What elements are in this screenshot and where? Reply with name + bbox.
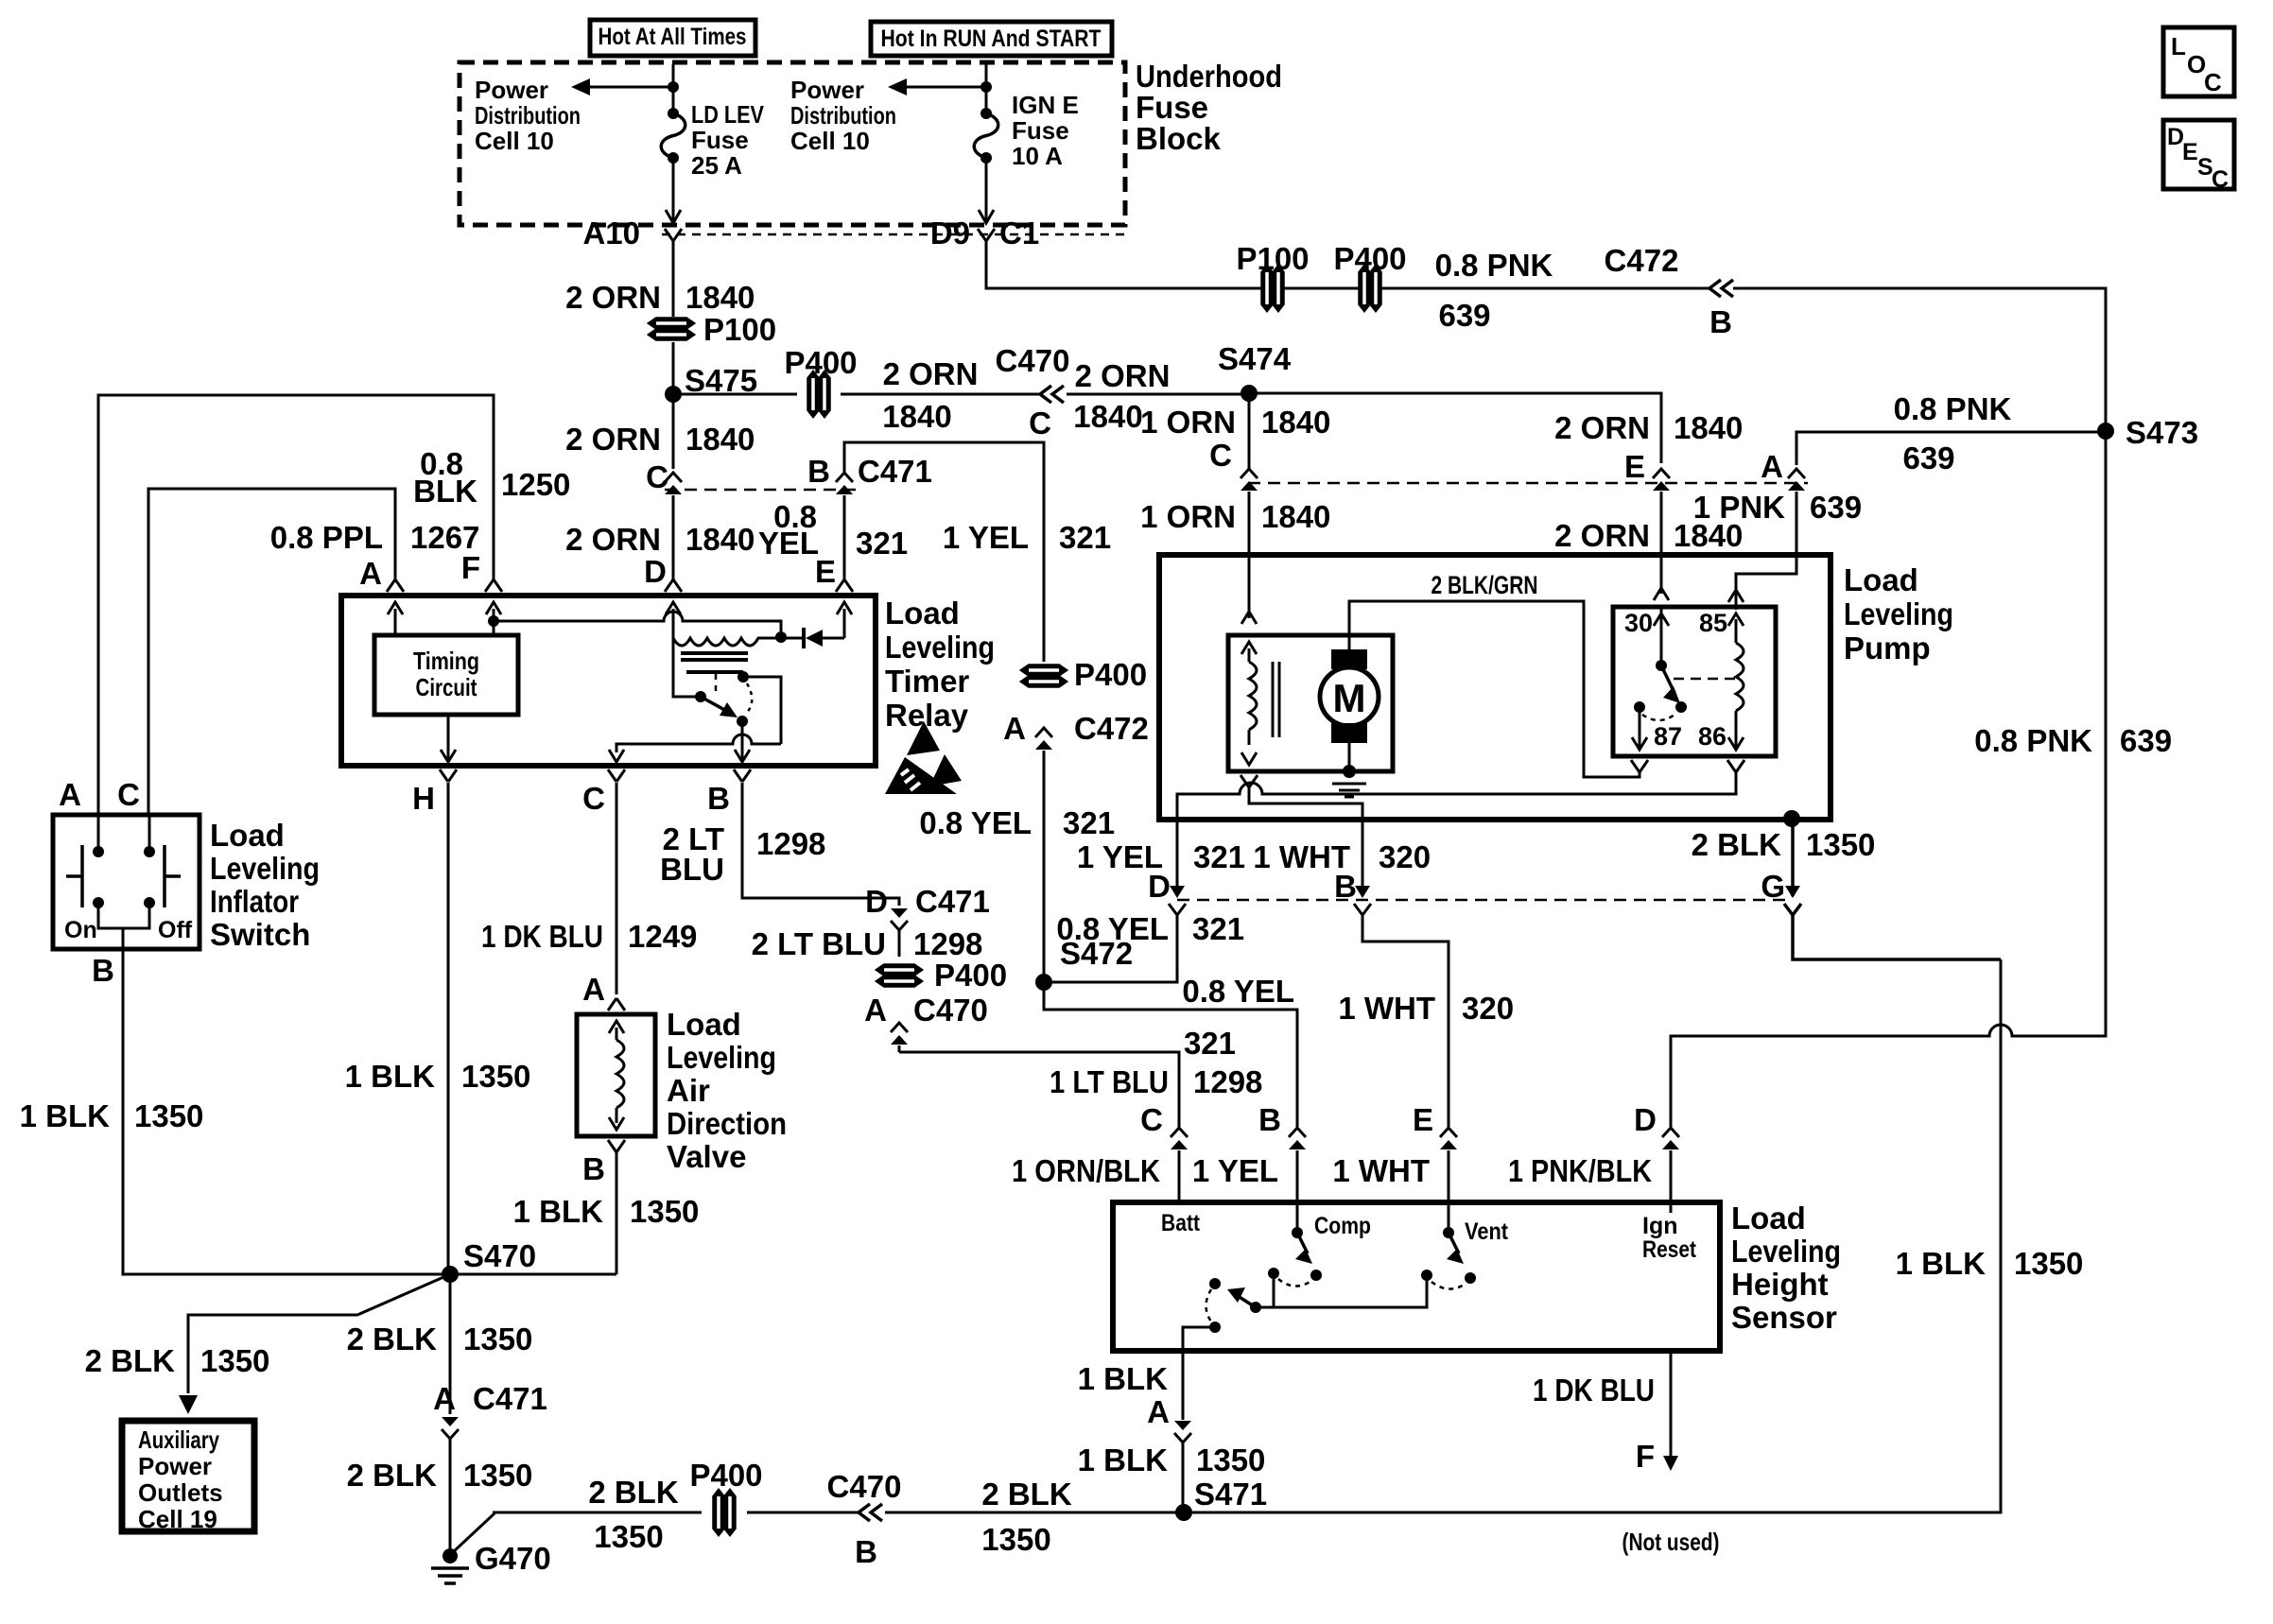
svg-text:639: 639 (1810, 490, 1862, 525)
svg-text:Direction: Direction (667, 1106, 787, 1141)
wire: relay A to timing circuit (394, 609, 397, 635)
svg-text:F: F (1636, 1439, 1655, 1474)
valve internal arrow (top) (609, 1021, 624, 1033)
suppressor coil exit fork (1241, 775, 1249, 787)
connector P400 grommet (C1 run) (1360, 266, 1370, 311)
wire: IGN E fuse output (985, 158, 988, 221)
svg-text:321: 321 (1063, 805, 1115, 840)
sensor Batt switch lower contact (1209, 1322, 1221, 1333)
wire: sensor Ign Reset pin stub (1670, 1202, 1673, 1213)
connector C471 dashed line (665, 489, 856, 492)
relay pin H internal arrow (441, 750, 456, 762)
splice S472 (1035, 974, 1052, 991)
svg-text:Load: Load (210, 818, 285, 853)
svg-text:1 YEL: 1 YEL (1192, 1153, 1278, 1188)
node: Vent right contact (1465, 1272, 1476, 1284)
svg-text:1350: 1350 (1196, 1443, 1265, 1477)
valve solenoid coil (616, 1028, 618, 1040)
svg-text:1 PNK/BLK: 1 PNK/BLK (1508, 1153, 1652, 1188)
relay pin D entry fork (665, 579, 673, 592)
relay pin A internal arrow (388, 602, 403, 614)
wire: S472 to sensor B (Comp) (1044, 982, 1297, 1127)
svg-text:A: A (1761, 449, 1783, 484)
pump relay pin 86 exit fork (1727, 760, 1736, 772)
svg-text:B: B (807, 454, 830, 489)
Underhood Fuse Block dashed outline (460, 62, 1125, 225)
svg-text:1298: 1298 (1193, 1064, 1262, 1099)
node: switch Off lower contact (144, 897, 155, 908)
svg-text:2 BLK/GRN: 2 BLK/GRN (1431, 571, 1538, 599)
svg-text:0.8 YEL: 0.8 YEL (919, 805, 1032, 840)
wire: inflator switch C feed to relay A (148, 489, 395, 815)
sensor D fork pair (1662, 1128, 1679, 1137)
wire: C470 A to sensor C (Batt) (899, 1052, 1179, 1127)
wire: S470 down to C471 A (449, 1274, 452, 1414)
svg-text:2 ORN: 2 ORN (565, 422, 661, 457)
svg-text:Valve: Valve (667, 1139, 746, 1174)
sensor A fork pair (1174, 1421, 1191, 1430)
connector C470 chevrons (1040, 386, 1051, 403)
svg-text:Circuit: Circuit (416, 673, 477, 701)
wire: S473 west to pump A branch (1796, 432, 2106, 465)
svg-text:1 BLK: 1 BLK (345, 1059, 436, 1094)
switch Off fixed contact bar (163, 845, 166, 907)
pump relay 30 internal arrow (1654, 613, 1669, 626)
svg-text:P400: P400 (934, 958, 1007, 993)
wire: sensor Vent pin stub (1448, 1202, 1450, 1229)
svg-text:Timing: Timing (413, 647, 479, 675)
svg-text:S475: S475 (685, 363, 757, 398)
splice S470 (442, 1266, 459, 1283)
svg-text:G470: G470 (475, 1541, 551, 1576)
svg-text:639: 639 (1902, 441, 1954, 475)
wire: C470 to S474 (1067, 393, 1249, 396)
svg-text:1267: 1267 (410, 520, 479, 555)
svg-text:D: D (644, 554, 667, 589)
wire: G470 to ground bus diagonal (452, 1513, 495, 1553)
connector C471 joint at pin A (442, 1417, 459, 1426)
svg-text:S473: S473 (2126, 415, 2198, 450)
pin D9/C1 fork (978, 229, 986, 241)
connector C472 joint at pin C (1241, 469, 1258, 478)
svg-text:M: M (1333, 676, 1366, 720)
inflator switch A contact stub (97, 815, 100, 847)
connector P400 grommet (C470 A riser) (876, 965, 922, 976)
wire: P400 to C470 (841, 393, 1040, 396)
svg-text:321: 321 (1193, 839, 1245, 874)
wire: C472 A into pump to relay 85 (1736, 492, 1796, 586)
wire: 2 BLK/GRN motor feed from relay 87 (1349, 601, 1640, 777)
wire: C472 E to Load Leveling Pump (1660, 492, 1663, 555)
wire: relay E to diode (843, 609, 846, 638)
svg-text:C470: C470 (913, 993, 988, 1028)
svg-text:30: 30 (1624, 609, 1653, 637)
svg-text:E: E (1413, 1102, 1433, 1137)
svg-text:2 ORN: 2 ORN (883, 356, 979, 391)
svg-text:Fuse: Fuse (691, 126, 749, 154)
svg-text:1350: 1350 (630, 1194, 699, 1229)
svg-text:0.8 PNK: 0.8 PNK (1435, 248, 1553, 283)
svg-text:Fuse: Fuse (1012, 116, 1069, 145)
svg-text:320: 320 (1462, 991, 1514, 1026)
svg-text:P100: P100 (1236, 241, 1309, 276)
svg-text:D9: D9 (930, 216, 970, 251)
svg-text:A: A (1147, 1394, 1170, 1429)
wire: sensor A joint to S471 (1182, 1443, 1185, 1512)
svg-text:E: E (815, 554, 836, 589)
node: switch C contact (144, 846, 155, 857)
node: relay F junction (488, 615, 499, 627)
svg-text:A10: A10 (582, 216, 640, 251)
Load Leveling Height Sensor box (1113, 1202, 1720, 1351)
wire: hot feed C1 run to C472 B (986, 241, 1265, 288)
connector C471 joint at pin C (665, 473, 682, 482)
svg-text:1298: 1298 (756, 826, 825, 861)
wire: C471 B down to relay pin E (843, 495, 846, 580)
arrowhead at fuse block exit A10 (666, 210, 681, 223)
wire: sensor Comp pin stub (1296, 1202, 1299, 1229)
power label box: Hot In RUN And START (871, 22, 1112, 56)
wire: 2 ORN 1840 from A10 to P100 (672, 241, 675, 317)
node: Vent contact (1443, 1227, 1454, 1238)
relay pin F entry fork (485, 579, 494, 592)
splice S475 (665, 386, 682, 403)
relay armature dashed actuator link (715, 674, 718, 695)
inflator switch C contact stub (148, 815, 151, 847)
svg-text:1350: 1350 (463, 1458, 532, 1493)
wire: battery feed into LD LEV fuse (672, 64, 675, 112)
svg-text:C: C (1029, 406, 1051, 441)
wire: ground bus west segment (493, 1512, 702, 1514)
switch On fixed contact bar (80, 845, 84, 907)
relay pin D internal arrow (666, 602, 681, 614)
pump relay box (1613, 607, 1776, 756)
wire: S470 branch to auxiliary power outlets (188, 1274, 450, 1393)
svg-text:B: B (1334, 869, 1357, 904)
sensor Batt switch upper contact (1209, 1278, 1221, 1289)
svg-text:C470: C470 (827, 1469, 902, 1504)
connector C470 chevrons (ground bus) (859, 1504, 870, 1521)
wire: inflator B to S470 run (123, 949, 448, 1274)
relay alternate-throw dotted arc (746, 683, 752, 714)
wire: relay C to valve A (616, 783, 618, 994)
node: sensor Vent-side bus contact (1421, 1270, 1432, 1281)
svg-text:BLU: BLU (660, 852, 724, 887)
wire: relay internal C bus with hop over pin B wire (616, 734, 781, 752)
svg-text:Cell 10: Cell 10 (475, 127, 554, 155)
svg-text:1840: 1840 (1073, 399, 1142, 434)
splice S474 (1241, 385, 1258, 402)
pump pin C internal arrow (1241, 612, 1257, 624)
relay movable contact arm (701, 697, 728, 712)
relay coil (timer winding) (673, 638, 781, 646)
svg-text:Batt: Batt (1161, 1210, 1201, 1236)
connector P100 grommet (C1 run) (1262, 266, 1273, 311)
svg-text:Fuse: Fuse (1136, 90, 1208, 125)
svg-text:2 BLK: 2 BLK (347, 1458, 438, 1493)
connector C471 joint at pin B (836, 473, 853, 482)
svg-text:C: C (1209, 438, 1232, 473)
relay movable contact pivot (695, 691, 706, 702)
pump connector fork at D (1169, 904, 1186, 915)
svg-text:C: C (2212, 166, 2229, 193)
Auxiliary Power Outlets Cell 19 box (122, 1421, 254, 1531)
wire: relay B down to C471 D corner (742, 783, 899, 906)
ESD sensitivity symbol (885, 757, 957, 794)
sensor E fork pair (1440, 1128, 1457, 1137)
wire: C472 A to splice S472 (1043, 751, 1046, 982)
svg-text:F: F (461, 550, 480, 585)
connector C472 joint at pin A (lower) (1035, 728, 1052, 737)
svg-text:G: G (1761, 869, 1785, 904)
pump relay coil 85-86 (1735, 619, 1738, 643)
svg-text:Outlets: Outlets (138, 1478, 223, 1507)
svg-text:Leveling: Leveling (210, 851, 320, 886)
diode CR1 (suppression) (802, 628, 806, 648)
svg-text:D: D (865, 884, 888, 919)
svg-text:1 LT BLU: 1 LT BLU (1050, 1064, 1169, 1099)
svg-text:Load: Load (1844, 562, 1918, 597)
svg-text:1 BLK: 1 BLK (1078, 1361, 1169, 1396)
svg-text:Height: Height (1731, 1267, 1829, 1302)
wire: pump G to C473 row (1791, 819, 1795, 896)
svg-text:1350: 1350 (134, 1098, 203, 1133)
svg-text:321: 321 (1184, 1026, 1236, 1061)
Timing Circuit box (374, 635, 518, 715)
svg-text:Inflator: Inflator (210, 884, 299, 919)
wire: inflator switch A feed to relay F (98, 395, 494, 815)
svg-text:B: B (1258, 1102, 1281, 1137)
svg-text:1840: 1840 (1261, 405, 1330, 440)
svg-text:25 A: 25 A (691, 151, 742, 180)
wire: 87 contact to pin 87 (1639, 707, 1641, 747)
wire: pump B jog to height sensor E (1362, 915, 1449, 1127)
svg-text:1 YEL: 1 YEL (943, 520, 1029, 555)
svg-text:1250: 1250 (501, 467, 570, 502)
wire: C470 A down to sensor C run (898, 1045, 901, 1052)
node: Comp left contact (1268, 1268, 1279, 1279)
svg-text:1840: 1840 (685, 422, 755, 457)
wire: arrow to Power Distribution (right) (901, 86, 986, 89)
svg-text:Air: Air (667, 1073, 710, 1108)
svg-text:Pump: Pump (1844, 631, 1931, 665)
svg-text:Vent: Vent (1465, 1218, 1509, 1245)
relay armature plate (686, 670, 743, 674)
sensor Vent dashed arc (1431, 1282, 1466, 1289)
svg-text:2 LT BLU: 2 LT BLU (752, 926, 886, 961)
wire: armature to pin B (741, 721, 744, 760)
svg-text:1840: 1840 (685, 522, 755, 557)
svg-text:S472: S472 (1060, 936, 1133, 971)
splice S471 (1175, 1504, 1192, 1521)
svg-text:1350: 1350 (594, 1519, 663, 1554)
wire: arrow to Power Distribution (left) (584, 86, 673, 89)
svg-text:BLK: BLK (413, 474, 477, 509)
wire: 30 to contact pivot (1660, 607, 1663, 662)
pump relay movable contact arm (1661, 665, 1674, 693)
node: Comp contact (1292, 1227, 1303, 1238)
svg-text:2 BLK: 2 BLK (981, 1477, 1072, 1512)
wire: S474 drop to pump C (1248, 393, 1251, 469)
connector P400 grommet (ground bus) (714, 1490, 724, 1535)
svg-text:1840: 1840 (1261, 499, 1330, 534)
relay pin E internal arrow (837, 602, 852, 614)
svg-text:Load: Load (1731, 1201, 1806, 1235)
svg-text:1 BLK: 1 BLK (1078, 1443, 1169, 1477)
node: LD LEV feed junction (668, 81, 679, 93)
wire: valve B to S470 run (616, 1152, 618, 1274)
svg-text:P400: P400 (689, 1458, 762, 1493)
suppressor coil internal arrow (top) (1241, 642, 1257, 654)
svg-text:B: B (1709, 304, 1732, 339)
svg-text:S474: S474 (1218, 341, 1292, 376)
svg-text:Reset: Reset (1642, 1236, 1697, 1263)
wire: relay F bus with hop over D wire (494, 612, 781, 631)
valve pin B exit fork (608, 1140, 616, 1152)
connector C472 joint at pin A (1788, 469, 1805, 478)
svg-text:2 ORN: 2 ORN (565, 280, 661, 315)
svg-text:P100: P100 (703, 312, 776, 347)
svg-text:639: 639 (1438, 298, 1490, 333)
connector C472 dashed line (1248, 482, 1808, 485)
wire: lower contact to pin A (1183, 1327, 1215, 1351)
svg-text:Power: Power (475, 76, 548, 104)
svg-text:Cell 19: Cell 19 (138, 1505, 217, 1533)
svg-text:85: 85 (1699, 609, 1727, 637)
svg-text:C471: C471 (915, 884, 990, 919)
svg-text:1840: 1840 (882, 399, 951, 434)
wire: P100 to S475 (672, 342, 675, 391)
svg-text:87: 87 (1654, 722, 1682, 751)
svg-text:C1: C1 (999, 216, 1039, 251)
sensor Vent movable arm (1449, 1233, 1459, 1253)
wire: sensor F (not used) (1670, 1351, 1673, 1465)
svg-text:C471: C471 (473, 1381, 547, 1416)
svg-text:Underhood: Underhood (1136, 59, 1282, 94)
wire: pump D to S472 corner (1044, 915, 1177, 982)
wire: relay F to timing circuit (493, 609, 495, 635)
svg-text:Ign: Ign (1642, 1213, 1678, 1239)
wire: C471 B up and over to P400/C472 A (844, 442, 1044, 662)
pump motor M1 (1331, 649, 1367, 669)
svg-text:B: B (707, 781, 730, 816)
wire: relay H to S470 (447, 783, 450, 1274)
pump pin E internal arrow (1654, 588, 1669, 600)
wire: P400 to C470 (ground bus) (747, 1512, 859, 1514)
svg-text:C472: C472 (1605, 243, 1679, 278)
svg-text:Leveling: Leveling (667, 1040, 776, 1075)
wire: C470 to S471 (885, 1512, 1184, 1514)
relay pin C exit fork (608, 769, 616, 782)
connector C472 chevrons at B (1709, 280, 1721, 297)
fuse IGN E 10 A symbol (980, 108, 992, 119)
svg-text:1 WHT: 1 WHT (1338, 991, 1435, 1026)
svg-text:1350: 1350 (463, 1322, 532, 1356)
node: armature tip contact (737, 716, 748, 727)
svg-text:C470: C470 (996, 343, 1070, 378)
svg-text:Off: Off (158, 917, 193, 943)
svg-text:IGN E: IGN E (1012, 91, 1079, 119)
svg-text:1 PNK: 1 PNK (1693, 490, 1785, 525)
svg-text:(Not used): (Not used) (1622, 1528, 1720, 1556)
node: Comp right contact (1310, 1270, 1322, 1281)
sensor Batt switch dashed arc (1206, 1289, 1212, 1322)
motor case ground (1348, 743, 1351, 766)
node: coil-diode junction (775, 631, 787, 643)
node: 30 contact pivot (1656, 660, 1667, 671)
svg-text:1350: 1350 (200, 1343, 269, 1378)
wire: suppressor coil to pump pin B (1249, 786, 1362, 820)
svg-text:E: E (2182, 139, 2198, 165)
svg-text:B: B (582, 1151, 605, 1186)
pump relay 87 dotted arc (1642, 715, 1674, 720)
DESC reference box (2163, 120, 2234, 189)
node: switch On lower contact (93, 897, 104, 908)
svg-text:1 DK BLU: 1 DK BLU (1533, 1373, 1655, 1408)
pump suppressor coil box (1228, 635, 1393, 771)
svg-text:Distribution: Distribution (790, 101, 896, 130)
svg-text:2 BLK: 2 BLK (347, 1322, 438, 1356)
relay pin F internal arrow (486, 602, 501, 614)
pump relay 86 internal arrow (1728, 737, 1744, 750)
svg-text:A: A (59, 777, 81, 812)
svg-text:A: A (582, 972, 605, 1007)
power label box: Hot At All Times (590, 20, 755, 56)
svg-text:Load: Load (667, 1007, 741, 1042)
svg-text:C: C (582, 781, 605, 816)
pump relay 85 internal arrow (1728, 613, 1744, 626)
svg-text:Hot At All Times: Hot At All Times (599, 24, 747, 50)
svg-text:Leveling: Leveling (1731, 1234, 1841, 1269)
wire: pump B to C473 row (1362, 820, 1364, 896)
svg-text:P400: P400 (1074, 657, 1147, 692)
arrowhead at fuse block exit D9 (979, 210, 994, 223)
pin A10 fork (665, 229, 673, 241)
sensor Comp movable arm (1297, 1233, 1308, 1253)
connector C472 joint at pin E (1653, 469, 1670, 478)
svg-text:Auxiliary: Auxiliary (138, 1425, 219, 1454)
svg-text:86: 86 (1698, 722, 1726, 751)
svg-text:Power: Power (138, 1452, 212, 1480)
svg-text:C: C (117, 777, 140, 812)
svg-text:D: D (1634, 1102, 1657, 1137)
node: pump relay armature tip (1675, 701, 1687, 713)
sensor selector bus (1256, 1278, 1427, 1307)
relay pin B internal arrow (735, 750, 750, 762)
Load Leveling Pump box (1159, 555, 1831, 820)
wire: C471 C to relay pin D (672, 495, 675, 580)
svg-text:639: 639 (2120, 723, 2172, 758)
svg-text:1 BLK: 1 BLK (513, 1194, 604, 1229)
svg-text:321: 321 (856, 526, 908, 561)
pump connector fork at B (1354, 904, 1371, 915)
wire: P400 to C472 B (1378, 287, 1709, 290)
svg-text:C472: C472 (1074, 711, 1149, 746)
svg-text:1249: 1249 (628, 919, 697, 954)
svg-text:1 ORN: 1 ORN (1140, 405, 1236, 440)
svg-text:2 ORN: 2 ORN (565, 522, 661, 557)
svg-text:321: 321 (1059, 520, 1111, 555)
svg-text:A: A (864, 993, 887, 1028)
svg-text:P400: P400 (784, 345, 857, 380)
ground G470 (442, 1548, 458, 1564)
svg-text:2 ORN: 2 ORN (1075, 358, 1171, 393)
suppressor coil internal arrow (bottom) (1241, 752, 1257, 765)
relay pin H exit fork (440, 769, 448, 782)
wire: sensor A to S471 (1182, 1351, 1185, 1420)
svg-text:2 BLK: 2 BLK (85, 1343, 176, 1378)
svg-text:1840: 1840 (685, 280, 755, 315)
